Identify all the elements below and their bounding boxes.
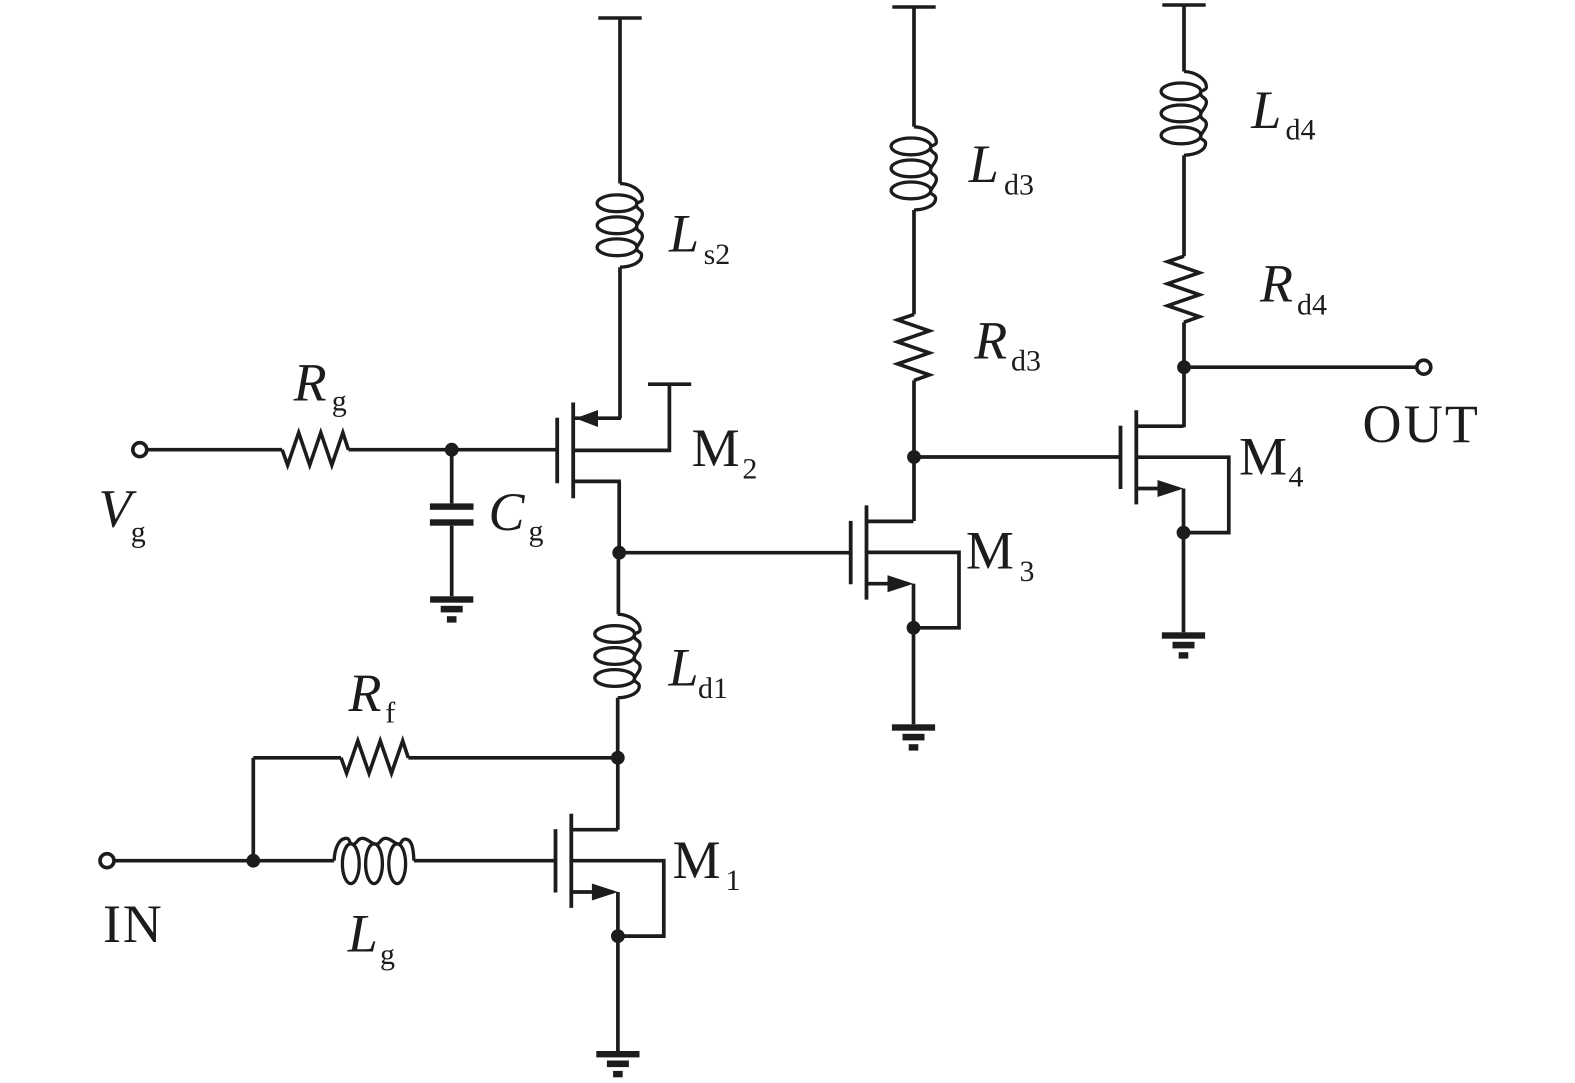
svg-text:IN: IN — [103, 894, 164, 954]
wire VDD to Ld4 — [1182, 5, 1186, 72]
node Ld1 / Rf / M1 drain — [611, 751, 625, 765]
transistor M1 source line with arrow — [571, 890, 613, 894]
svg-text:L: L — [347, 904, 378, 964]
svg-text:3: 3 — [1020, 555, 1035, 588]
wire M2 drain down to node — [617, 481, 621, 553]
ground below M1 — [596, 1051, 639, 1057]
svg-text:L: L — [1250, 80, 1281, 140]
svg-text:s2: s2 — [704, 238, 731, 271]
transistor M4 channel — [1134, 410, 1138, 504]
svg-text:L: L — [668, 204, 699, 264]
wire Rd4 to M4 drain — [1182, 322, 1186, 427]
svg-text:1: 1 — [726, 864, 741, 897]
transistor M1 bulk wire — [571, 861, 664, 936]
wire Rg to M2 gate — [348, 448, 557, 452]
svg-text:d3: d3 — [1011, 345, 1041, 378]
svg-text:M: M — [692, 418, 740, 478]
VDD supply bar (top of Ld4) — [1162, 3, 1205, 7]
transistor M2 source line (top) — [573, 416, 621, 420]
node Rd3 / M3 drain / M4 gate — [907, 450, 921, 464]
svg-text:g: g — [131, 516, 146, 549]
wire Rf node to resistor Rf — [408, 756, 618, 760]
transistor M4 source line with arrow — [1136, 487, 1178, 491]
wire Ld1 to Rf node — [616, 698, 620, 758]
svg-text:OUT: OUT — [1363, 394, 1481, 454]
wire node to Ld1 — [617, 553, 621, 615]
terminal IN — [100, 854, 114, 868]
VDD supply bar (top of Ld3) — [892, 5, 935, 9]
wire Ld4 to Rd4 — [1182, 155, 1186, 256]
wire Vg to Rg — [148, 448, 283, 452]
inductor Ls2 — [620, 184, 642, 268]
transistor M2 source arrow — [575, 410, 598, 427]
transistor M1 channel — [569, 814, 573, 908]
node M4 source/bulk — [1177, 526, 1191, 540]
node IN / Lg / Rf — [246, 854, 260, 868]
wire Ld3 to Rd3 — [912, 210, 916, 314]
transistor M3 channel — [865, 505, 869, 599]
wire VDD to Ld3 — [912, 7, 916, 127]
VDD supply bar (top of Ls2) — [598, 16, 641, 20]
transistor M3 source line with arrow — [867, 582, 909, 586]
transistor M4 drain line — [1136, 424, 1183, 428]
ground below M3 — [892, 724, 935, 730]
svg-text:d3: d3 — [1004, 169, 1034, 202]
resistor Rd4 — [1168, 256, 1200, 322]
node M2 drain / Ld1 / M3 gate — [612, 546, 626, 560]
wire Rd3 to M3 drain — [912, 380, 916, 521]
transistor M3 drain line — [867, 520, 914, 524]
wire M3 source to ground — [912, 628, 916, 725]
wire Lg to M1 gate — [414, 859, 556, 863]
node M3 source/bulk — [907, 621, 921, 635]
svg-text:M: M — [673, 830, 721, 890]
transistor M2 channel — [571, 403, 575, 499]
wire node to Lg — [253, 859, 334, 863]
svg-text:C: C — [489, 482, 526, 542]
svg-text:R: R — [973, 310, 1007, 370]
inductor Ld1 — [618, 614, 640, 698]
svg-text:R: R — [348, 663, 382, 723]
resistor Rf — [341, 741, 408, 773]
inductor Ld3 — [914, 127, 936, 210]
svg-text:d4: d4 — [1286, 114, 1316, 147]
svg-text:4: 4 — [1289, 461, 1304, 494]
transistor M2 gate bar — [555, 418, 559, 484]
resistor Rd3 — [898, 314, 930, 380]
terminal Vg — [133, 443, 147, 457]
transistor M3 gate bar — [849, 521, 853, 584]
capacitor Cg bottom plate — [430, 519, 474, 525]
svg-text:M: M — [1239, 427, 1287, 487]
svg-text:f: f — [385, 697, 395, 730]
wire IN to node — [115, 859, 254, 863]
svg-text:g: g — [380, 938, 395, 971]
wire node to Cg — [450, 450, 454, 504]
svg-text:M: M — [966, 521, 1014, 581]
wire node down to M1 drain — [616, 758, 620, 830]
transistor M2 bulk top bar — [648, 382, 691, 386]
svg-text:R: R — [293, 352, 327, 412]
transistor M3 bulk wire — [867, 552, 960, 627]
wire M4 source to ground — [1182, 533, 1186, 633]
resistor Rg — [282, 433, 348, 465]
wire node to M3 gate — [619, 551, 851, 555]
svg-text:d1: d1 — [698, 672, 728, 705]
transistor M1 gate bar — [554, 829, 558, 892]
wire Cg to ground — [450, 526, 454, 597]
transistor M1 drain line — [571, 828, 618, 832]
inductor Lg — [334, 838, 414, 860]
svg-text:2: 2 — [742, 453, 757, 486]
inductor Ld4 — [1184, 72, 1206, 156]
svg-text:L: L — [668, 638, 699, 698]
node Rd4 / M4 drain / OUT — [1177, 360, 1191, 374]
wire node to OUT — [1184, 365, 1416, 369]
svg-text:d4: d4 — [1297, 288, 1327, 321]
transistor M4 bulk wire — [1136, 457, 1229, 532]
wire Rf to IN node (vertical) — [251, 758, 255, 861]
ground below M4 — [1162, 632, 1205, 638]
ground below Cg — [430, 596, 473, 602]
transistor M4 gate bar — [1119, 426, 1123, 489]
wire Ls2 to M2 source — [618, 267, 622, 418]
wire VDD to Ls2 — [618, 18, 622, 184]
node M1 source/bulk — [611, 929, 625, 943]
wire Rf to IN node (horizontal) — [253, 756, 341, 760]
svg-text:R: R — [1259, 254, 1293, 314]
wire node to M4 gate — [914, 455, 1122, 459]
svg-text:L: L — [968, 134, 999, 194]
node Rg / Cg / M2 gate — [445, 443, 459, 457]
svg-text:g: g — [332, 385, 347, 418]
transistor M2 bulk wire — [573, 384, 669, 450]
capacitor Cg top plate — [430, 503, 474, 509]
transistor M2 drain line (bottom) — [573, 480, 621, 484]
svg-text:g: g — [529, 515, 544, 548]
wire M1 source to ground — [616, 936, 620, 1051]
terminal OUT — [1417, 360, 1431, 374]
